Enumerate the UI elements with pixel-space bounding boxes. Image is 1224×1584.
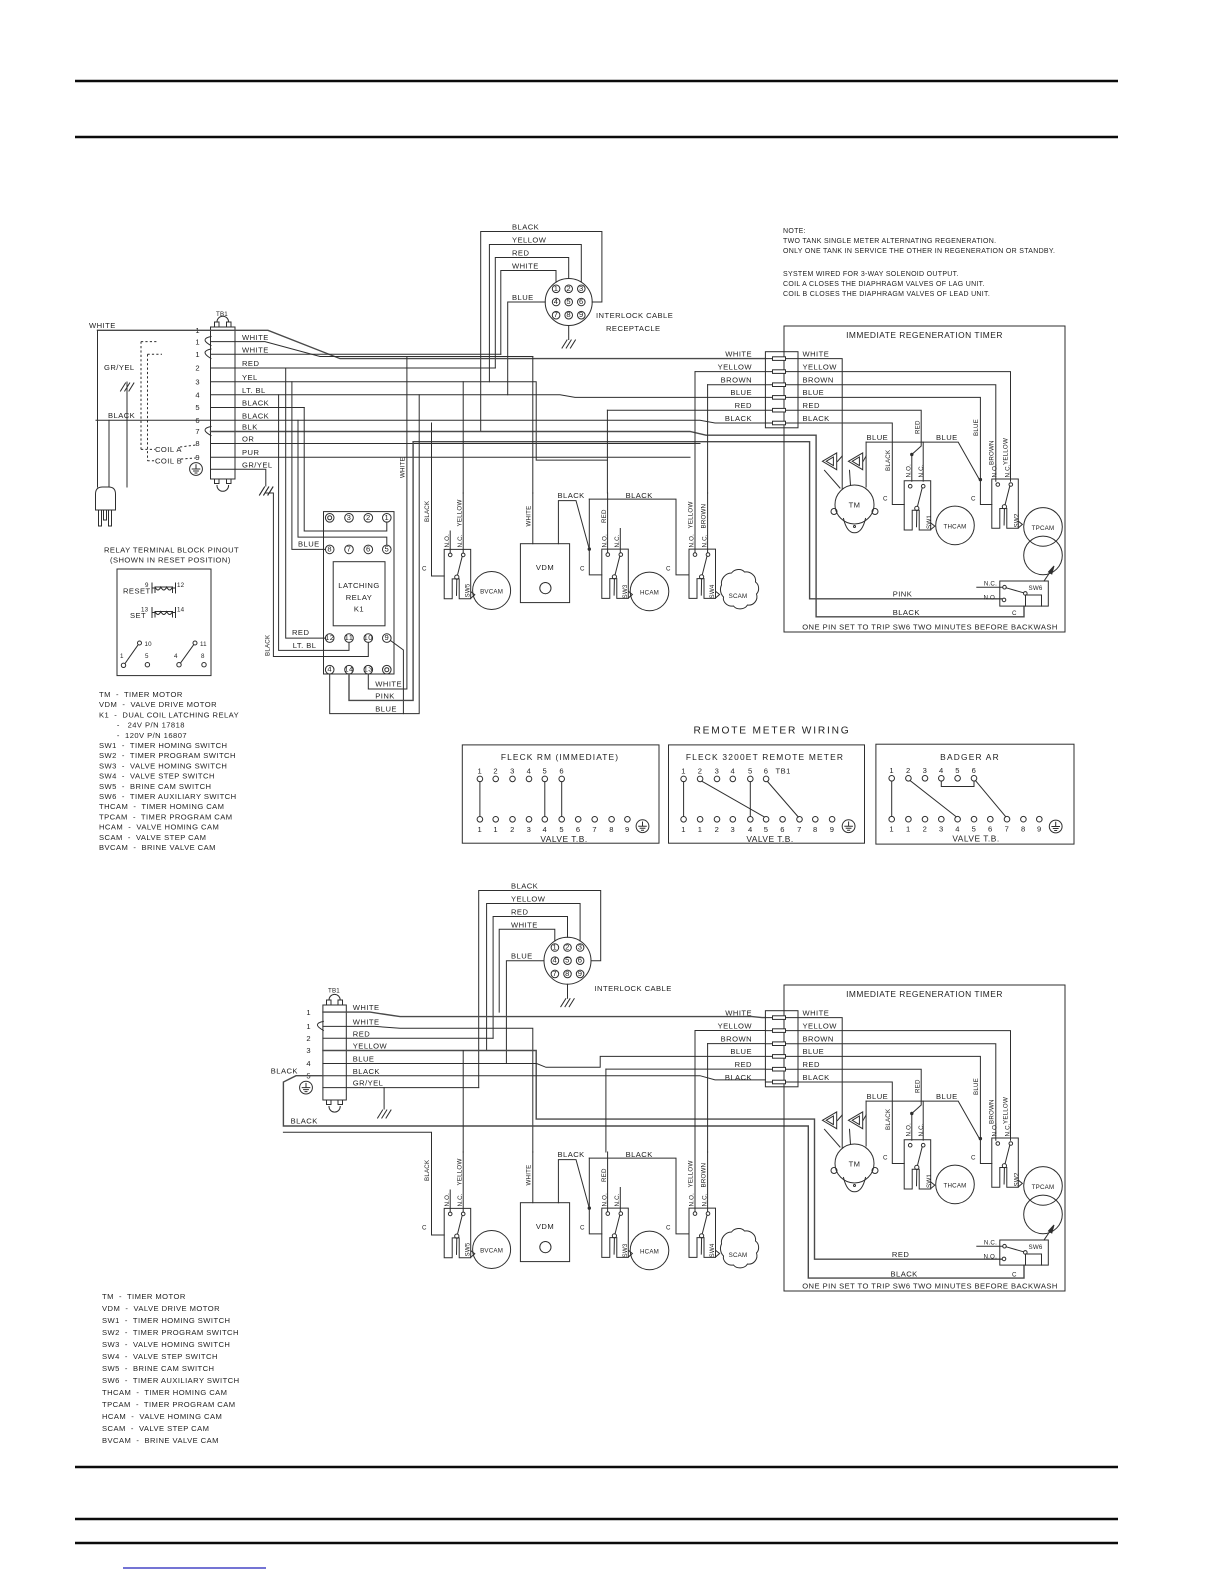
wire WHITE to TM [798,359,842,489]
svg-text:3: 3 [715,767,720,776]
switch SW2 [992,479,1023,528]
svg-text:RED: RED [292,628,309,637]
svg-text:2: 2 [306,1034,311,1043]
wire SW3 N.O. RED [607,493,609,553]
svg-text:8: 8 [195,439,200,448]
wires box2 [684,781,799,817]
svg-text:K1: K1 [354,605,364,614]
svg-text:WHITE: WHITE [511,920,538,929]
svg-text:1: 1 [698,825,703,834]
wire RED connector feed (top) [607,409,765,411]
dashed link COIL A [140,342,142,450]
svg-text:TM - TIMER MOTOR: TM - TIMER MOTOR [99,690,183,699]
svg-text:WHITE: WHITE [512,262,539,271]
svg-text:7: 7 [1005,824,1010,833]
svg-text:FLECK 3200ET REMOTE METER: FLECK 3200ET REMOTE METER [686,752,844,762]
blue footer line [123,1567,266,1569]
svg-text:N.C.: N.C. [701,534,708,547]
wire SW5 common BLACK [432,493,445,576]
svg-text:SYSTEM WIRED FOR 3-WAY SOLENOI: SYSTEM WIRED FOR 3-WAY SOLENOID OUTPUT. [783,271,959,278]
svg-text:9: 9 [625,825,630,834]
svg-text:4: 4 [542,825,547,834]
svg-text:C: C [883,496,888,503]
wire BROWN connector feed (top) [708,384,766,386]
top horizontal rule 2 [75,136,1118,138]
svg-text:6: 6 [988,824,993,833]
svg-text:YELLOW: YELLOW [718,362,753,371]
relay pins bottom row [325,665,391,674]
svg-text:OR: OR [242,435,254,444]
svg-text:5: 5 [955,766,960,775]
svg-text:14: 14 [177,607,185,614]
svg-text:BLACK: BLACK [558,491,585,500]
svg-text:N.O.: N.O. [905,464,912,478]
svg-text:LT. BL: LT. BL [293,641,317,650]
svg-text:BLACK: BLACK [108,411,135,420]
svg-text:BLACK: BLACK [725,414,752,423]
svg-text:VDM: VDM [536,563,554,572]
svg-text:TWO TANK SINGLE METER ALTERNAT: TWO TANK SINGLE METER ALTERNATING REGENE… [783,238,996,245]
wire BLACK bus to SW3/SW4 common [589,499,602,575]
switch SW3 [602,549,633,598]
timer enclosure box [784,326,1065,632]
svg-text:N.O.: N.O. [983,594,997,601]
svg-text:TM - TIMER MOTOR: TM - TIMER MOTOR [102,1292,186,1301]
coil B feed [865,442,867,487]
svg-text:BLACK: BLACK [626,491,653,500]
svg-text:5: 5 [195,403,200,412]
wire relay pin4 BLUE [330,395,420,714]
svg-text:1: 1 [120,653,124,660]
svg-text:REMOTE METER WIRING: REMOTE METER WIRING [693,726,850,737]
svg-text:4: 4 [327,665,332,674]
svg-text:3: 3 [939,824,944,833]
svg-text:ONLY ONE TANK IN SERVICE THE O: ONLY ONE TANK IN SERVICE THE OTHER IN RE… [783,248,1055,255]
wire interlock BLUE (bottom) [506,961,544,1064]
svg-text:5: 5 [972,824,977,833]
svg-text:THCAM - TIMER HOMING CAM: THCAM - TIMER HOMING CAM [102,1388,227,1397]
svg-text:3: 3 [527,825,532,834]
terminal block TB1 (top) [211,316,236,491]
wire YELLOW down to SW4 N.O. (bottom) [694,1031,696,1153]
svg-text:9: 9 [384,633,389,642]
svg-text:9: 9 [195,453,200,462]
svg-text:VALVE T.B.: VALVE T.B. [952,834,999,844]
legend text (bottom diagram) [102,1292,240,1445]
svg-text:5: 5 [748,767,753,776]
svg-text:SW2 - TIMER PROGRAM SWITCH: SW2 - TIMER PROGRAM SWITCH [102,1328,239,1337]
svg-text:BLACK: BLACK [803,414,830,423]
TB1 pin numbers (bottom) [306,1008,311,1081]
svg-text:4: 4 [939,766,944,775]
wire YELLOW down to SW5 N.C. (bottom) [462,1051,464,1153]
svg-text:8: 8 [201,653,205,660]
svg-text:13: 13 [364,665,373,674]
wire YELLOW to SW2 N.C. [798,372,1011,482]
TB1 wire labels [242,333,273,470]
svg-text:SW5: SW5 [464,583,471,597]
svg-text:1: 1 [681,825,686,834]
svg-text:12: 12 [325,633,334,642]
svg-text:BLACK: BLACK [424,500,431,522]
svg-text:WHITE: WHITE [353,1003,380,1012]
svg-text:6: 6 [780,825,785,834]
interlock cable receptacle (shared symbol) [545,279,592,349]
svg-text:1: 1 [889,766,894,775]
svg-text:BLUE: BLUE [936,433,958,442]
svg-text:11: 11 [200,641,207,648]
switch SW6 [977,566,1054,606]
svg-text:2: 2 [923,824,928,833]
wire TB1 row1 WHITE to connector (bottom) [323,1012,766,1018]
wire TB1 row3 WHITE to interlock [211,353,501,355]
wire power cord black [108,420,110,487]
svg-text:RELAY TERMINAL BLOCK PINOUT: RELAY TERMINAL BLOCK PINOUT [104,546,239,555]
wire BROWN down to SW4 N.C. (bottom) [707,1044,709,1152]
svg-text:3: 3 [195,378,200,387]
wire SW4 N.O. YELLOW [694,493,696,553]
relay pins row 3 [325,634,391,643]
svg-text:WHITE: WHITE [353,1018,380,1027]
svg-text:BLUE: BLUE [803,388,825,397]
svg-text:SW6: SW6 [1029,585,1043,592]
svg-text:N.C.: N.C. [918,464,925,477]
svg-text:BLACK: BLACK [242,399,269,408]
wire interlock BLACK (top) [481,232,602,432]
wire TB1 row6 BLACK to connector (bottom) [323,1076,766,1080]
svg-text:TPCAM - TIMER PROGRAM CAM: TPCAM - TIMER PROGRAM CAM [102,1400,236,1409]
wire YELLOW connector feed (top) [695,371,765,373]
wire BLACK to SW1 common [798,423,904,505]
svg-text:7: 7 [347,544,352,553]
TB1 crimp mark (bottom) [317,1021,323,1030]
svg-text:1: 1 [493,825,498,834]
svg-text:1: 1 [306,1022,311,1031]
immediate regeneration timer (bottom) [718,985,1065,1291]
switch SW4 [689,549,720,598]
svg-text:HCAM: HCAM [640,589,659,596]
wire BLUE to SW2 common [798,397,992,504]
svg-text:1: 1 [306,1008,311,1017]
wire relay pin8 BLUE [292,382,326,550]
wire interlock RED (bottom) [493,917,567,1039]
valve drive motor VDM [520,544,569,603]
svg-text:C: C [971,496,976,503]
stub SW3 N.C. [619,529,621,553]
svg-text:BLUE: BLUE [730,388,752,397]
svg-text:TM: TM [849,501,861,510]
svg-text:SCAM: SCAM [729,593,748,600]
svg-text:7: 7 [592,825,597,834]
svg-text:BLACK: BLACK [265,634,272,656]
svg-text:8: 8 [566,310,571,319]
svg-text:BLUE: BLUE [512,293,534,302]
svg-text:BADGER AR: BADGER AR [940,752,1000,762]
svg-text:WHITE: WHITE [725,349,752,358]
earth ground TB1 (bottom) [378,1110,391,1118]
svg-text:WHITE: WHITE [526,506,533,527]
wire interlock YELLOW (bottom) [487,904,580,1051]
cam TPCAM [1024,508,1063,547]
svg-text:5: 5 [384,544,389,553]
relay pins top row [325,514,391,523]
svg-text:GR/YEL: GR/YEL [104,363,135,372]
cam THCAM [936,506,975,545]
svg-text:COIL A: COIL A [155,445,182,454]
svg-text:- 24V P/N 17818: - 24V P/N 17818 [99,721,185,730]
stub SW5 N.O. [449,531,451,553]
svg-text:2: 2 [566,284,571,293]
svg-text:YELLOW: YELLOW [512,236,547,245]
relay pins row 2 [325,545,391,554]
svg-text:BLACK: BLACK [242,411,269,420]
svg-text:TB1: TB1 [328,988,340,995]
wire RED to SW1 N.O. [798,410,921,481]
svg-text:4: 4 [195,391,200,400]
svg-text:10: 10 [364,633,373,642]
wire relay pin5 [298,420,387,545]
svg-text:RED: RED [242,359,259,368]
wire relay pin9 [391,641,404,714]
svg-text:9: 9 [1037,824,1042,833]
meter box BADGER AR [876,744,1074,844]
svg-text:5: 5 [145,653,149,660]
terminal block TB1 (bottom) [323,994,346,1112]
svg-text:1: 1 [195,338,200,347]
svg-text:12: 12 [177,582,185,589]
wire relay pin12 RED [286,368,326,638]
svg-text:BLUE: BLUE [375,705,397,714]
svg-text:5: 5 [542,767,547,776]
svg-text:GR/YEL: GR/YEL [242,460,273,469]
svg-text:3: 3 [923,766,928,775]
svg-text:5: 5 [764,825,769,834]
wire SW4 N.C. BROWN [707,493,709,553]
svg-text:1: 1 [889,824,894,833]
wire power cord white [97,330,99,487]
svg-text:TB1: TB1 [216,311,228,318]
svg-text:4: 4 [730,767,735,776]
svg-text:7: 7 [554,310,559,319]
earth ground power cord [121,383,134,391]
wire power cord green [126,382,128,487]
svg-text:YEL: YEL [242,373,258,382]
svg-text:VALVE T.B.: VALVE T.B. [540,834,587,844]
svg-text:SW2 - TIMER PROGRAM SWITCH: SW2 - TIMER PROGRAM SWITCH [99,751,236,760]
top horizontal rule 1 [75,80,1118,82]
svg-text:SW5 - BRINE CAM SWITCH: SW5 - BRINE CAM SWITCH [99,782,211,791]
svg-text:INTERLOCK CABLE: INTERLOCK CABLE [595,984,672,993]
svg-text:INTERLOCK CABLE: INTERLOCK CABLE [596,311,673,320]
wire relay pin14 PINK to SW6 N.O. [349,442,1002,701]
wire TB1 row5 BLACK left branch (long black to SW6 C) [283,1076,1024,1278]
svg-text:4: 4 [306,1059,311,1068]
wire TB1 row2 WHITE to VDM (bottom) [323,1026,533,1152]
latching relay K1 [324,512,395,674]
svg-text:3: 3 [306,1046,311,1055]
wire SW5 N.C. YELLOW [462,493,464,553]
svg-text:BLUE: BLUE [353,1055,375,1064]
svg-text:C: C [580,566,585,573]
wire relay pin1 [304,408,387,532]
svg-text:TPCAM: TPCAM [1032,525,1055,532]
svg-text:BROWN: BROWN [721,376,752,385]
svg-text:4: 4 [174,653,178,660]
svg-text:TB1: TB1 [776,767,791,776]
dashed link COIL B [147,354,149,460]
svg-text:K1 - DUAL COIL LATCHING RELA: K1 - DUAL COIL LATCHING RELAY [99,710,239,719]
svg-text:YELLOW: YELLOW [688,502,695,529]
svg-text:RED: RED [892,1250,909,1259]
svg-text:8: 8 [813,825,818,834]
cam switch band (bottom) [422,1150,759,1270]
wire TB1 row11 PUR [211,456,691,458]
svg-text:N.O.: N.O. [444,534,451,548]
svg-text:9: 9 [830,825,835,834]
connector pins [765,357,798,425]
cam HCAM [630,572,669,611]
wire TB1 row10 OR [211,443,701,445]
svg-text:RELAY: RELAY [346,593,373,602]
svg-text:VDM - VALVE DRIVE MOTOR: VDM - VALVE DRIVE MOTOR [102,1304,220,1313]
svg-text:7: 7 [797,825,802,834]
wire TB1 ground GR/YEL (bottom) [323,1087,479,1089]
cam SCAM [720,569,758,608]
wire interlock YELLOW (top) [489,245,581,382]
svg-text:SW3 - VALVE HOMING SWITCH: SW3 - VALVE HOMING SWITCH [102,1340,230,1349]
svg-text:N.C.: N.C. [1004,464,1011,477]
wire relay pin10 BLACK to earth [266,493,368,657]
svg-text:PINK: PINK [375,692,395,701]
svg-text:LATCHING: LATCHING [338,581,379,590]
svg-text:SW1 - TIMER HOMING SWITCH: SW1 - TIMER HOMING SWITCH [99,741,227,750]
svg-text:RED: RED [512,249,529,258]
svg-text:BROWN: BROWN [803,376,834,385]
svg-text:YELLOW: YELLOW [803,362,838,371]
timer motor TM [831,485,878,533]
svg-text:COIL B: COIL B [155,457,182,466]
svg-text:8: 8 [327,544,332,553]
wire YELLOW down to SW4 N.O. (top) [694,372,696,493]
svg-text:SW5 - BRINE CAM SWITCH: SW5 - BRINE CAM SWITCH [102,1364,214,1373]
svg-text:YELLOW: YELLOW [511,895,546,904]
svg-text:N.O.: N.O. [991,464,998,478]
interlock cable receptacle (bottom) [544,937,591,1007]
svg-text:9: 9 [145,582,149,589]
svg-text:COIL A CLOSES THE DIAPHRAGM VA: COIL A CLOSES THE DIAPHRAGM VALVES OF LA… [783,281,985,288]
TB1 ground pin symbol [190,463,203,476]
svg-text:FLECK RM (IMMEDIATE): FLECK RM (IMMEDIATE) [501,752,619,762]
svg-text:6: 6 [576,825,581,834]
svg-text:BLACK: BLACK [291,1117,318,1126]
wire BLACK down to SW5 C (top) [431,423,433,493]
svg-text:BVCAM - BRINE VALVE CAM: BVCAM - BRINE VALVE CAM [102,1436,219,1445]
svg-text:SCAM - VALVE STEP CAM: SCAM - VALVE STEP CAM [99,833,206,842]
cam BVCAM [473,572,511,610]
svg-text:COIL B CLOSES THE DIAPHRAGM VA: COIL B CLOSES THE DIAPHRAGM VALVES OF LE… [783,291,990,298]
svg-text:6: 6 [972,766,977,775]
svg-text:N.O.: N.O. [601,534,608,548]
wire TB1 ground GR/YEL to earth [211,469,266,486]
svg-text:LT. BL: LT. BL [242,386,266,395]
bottom horizontal rule 2 [75,1518,1118,1520]
svg-text:WHITE: WHITE [242,333,269,342]
svg-text:C: C [1012,610,1017,617]
svg-text:THCAM: THCAM [944,523,967,530]
svg-text:SW3: SW3 [622,584,629,598]
svg-text:VDM - VALVE DRIVE MOTOR: VDM - VALVE DRIVE MOTOR [99,700,217,709]
wire RED down to SW3 N.O. (top) [606,410,608,493]
svg-text:SW2: SW2 [1013,513,1020,527]
svg-text:5: 5 [566,297,571,306]
svg-text:WHITE: WHITE [242,346,269,355]
coil A [822,453,836,470]
wire TB1 row2 WHITE to VDM / relay pin13 [211,342,533,357]
wire TB1 row4 RED to interlock [211,367,496,369]
svg-text:2: 2 [366,513,371,522]
svg-text:BLACK: BLACK [353,1067,380,1076]
svg-text:VALVE T.B.: VALVE T.B. [746,834,793,844]
power plug P1 [96,487,116,526]
svg-text:SW4 - VALVE STEP SWITCH: SW4 - VALVE STEP SWITCH [102,1352,218,1361]
svg-text:BLUE: BLUE [298,540,320,549]
wire interlock BLUE (top) [508,302,546,395]
wire BROWN connector feed (bottom) [708,1043,766,1045]
wire TB1 row8 BLACK to timer connector BLACK [96,420,765,423]
svg-text:SW6 - TIMER AUXILIARY SWITCH: SW6 - TIMER AUXILIARY SWITCH [102,1376,240,1385]
svg-text:N.C.: N.C. [457,534,464,547]
svg-text:BLK: BLK [242,423,258,432]
wire interlock WHITE (bottom) [499,929,555,1012]
svg-text:8: 8 [609,825,614,834]
svg-text:RED: RED [803,401,820,410]
svg-text:- 120V P/N 16807: - 120V P/N 16807 [99,731,187,740]
svg-text:5: 5 [559,825,564,834]
earth ground at relay black [260,487,273,495]
wire BROWN down to SW4 N.C. (top) [707,385,709,493]
svg-text:1: 1 [478,767,483,776]
svg-text:1: 1 [384,513,389,522]
wire WHITE down to VDM (top) [532,357,534,494]
svg-text:2: 2 [715,825,720,834]
svg-text:SW3 - VALVE HOMING SWITCH: SW3 - VALVE HOMING SWITCH [99,761,227,770]
svg-text:3: 3 [510,767,515,776]
coil B [848,453,862,470]
wires box1 [480,782,562,817]
wire relay pin13 WHITE [368,357,407,690]
svg-text:PUR: PUR [242,448,259,457]
svg-text:3: 3 [579,284,584,293]
svg-text:YELLOW: YELLOW [353,1042,388,1051]
wire interlock WHITE (top) [501,271,556,355]
wire BLUE bus TM/SW1/SW2 [866,442,979,480]
svg-text:HCAM - VALVE HOMING CAM: HCAM - VALVE HOMING CAM [102,1412,222,1421]
svg-text:2: 2 [698,767,703,776]
svg-text:BLACK: BLACK [271,1067,298,1076]
svg-text:YELLOW: YELLOW [1002,438,1009,465]
timer connector block [765,352,798,428]
svg-text:7: 7 [195,427,200,436]
svg-text:RED: RED [601,509,608,523]
svg-text:BLACK: BLACK [891,1269,918,1278]
TB1 crimp marks [205,337,211,436]
meter box FLECK RM (IMMEDIATE) [462,745,659,843]
svg-text:RED: RED [735,401,752,410]
svg-text:1: 1 [906,824,911,833]
wire BROWN to SW2 N.O. [798,385,996,482]
svg-text:RECEPTACLE: RECEPTACLE [606,324,661,333]
wire YELLOW down to SW5 N.C. (top) [462,382,464,493]
